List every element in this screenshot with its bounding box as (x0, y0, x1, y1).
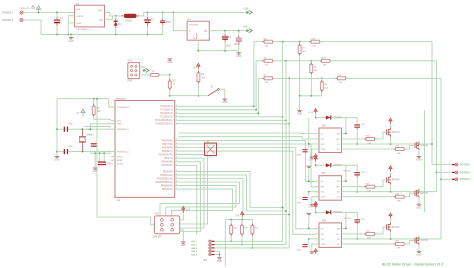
capacitor bootstrap 1uF (354, 219, 360, 220)
resistor R7 divider to gnd (299, 42, 301, 44)
ground low-side source (418, 150, 420, 156)
svg-text:R21: R21 (244, 227, 247, 229)
supply +12V arrow drain (390, 218, 392, 222)
svg-text:+12V: +12V (243, 7, 249, 10)
svg-text:GND: GND (68, 41, 73, 43)
capacitor C4 100n (162, 12, 164, 18)
svg-text:IRF540: IRF540 (392, 131, 400, 134)
wire VCC left (309, 143, 315, 145)
supply +12V arrow drain (390, 171, 392, 175)
svg-text:R20: R20 (234, 227, 237, 229)
wire output 3 (441, 178, 452, 180)
resistor R30 to phase (300, 41, 312, 43)
wire aux rows (179, 162, 201, 232)
svg-text:2: 2 (176, 146, 177, 148)
wire COM gnd (312, 197, 315, 205)
wire IC2 gnd (197, 40, 199, 51)
wire pin stub (315, 243, 319, 245)
wire phase to output vertical (431, 42, 433, 165)
wire pin stub (315, 233, 319, 235)
net flag serial (143, 68, 150, 72)
diode D1 catch diode (115, 16, 117, 19)
svg-text:PC5(ADC5/SCL): PC5(ADC5/SCL) (155, 123, 173, 126)
svg-text:100n: 100n (297, 250, 303, 252)
wire pin stub right (175, 154, 179, 156)
capacitor bootstrap 1uF (354, 124, 360, 125)
svg-text:100n: 100n (297, 202, 303, 204)
wire ADC vertical ch3 (257, 78, 259, 113)
svg-text:R35: R35 (396, 241, 399, 243)
voltage regulator IC2 MC33269 (187, 21, 209, 40)
wire VCC left (309, 191, 315, 193)
wire pin stub right (175, 188, 179, 190)
wire pin stub right (175, 123, 179, 125)
supply +12V arrow lower (314, 154, 317, 159)
ground (55, 156, 60, 157)
switch S1 (198, 95, 208, 97)
wire pin stub right (175, 164, 179, 166)
wire pin stub right (175, 174, 179, 176)
svg-text:AGND: AGND (117, 163, 123, 166)
wire pin stub (315, 148, 319, 150)
wire avcc nets (90, 152, 111, 154)
svg-text:AVR-ISP: AVR-ISP (152, 235, 162, 238)
capacitor 100n driver (308, 239, 310, 244)
wire hall signal 3 (179, 123, 290, 125)
transistor Q high-side MOSFET (387, 175, 391, 184)
svg-text:MOTOR-2: MOTOR-2 (460, 172, 471, 174)
wire pin stub (315, 133, 319, 135)
wire hall vertical 2 (285, 61, 287, 245)
ground low-side source (418, 245, 420, 251)
svg-text:100uH: 100uH (125, 20, 132, 22)
wire IN2 (179, 140, 315, 181)
svg-text:2: 2 (176, 170, 177, 172)
svg-text:+5V: +5V (76, 113, 80, 115)
diode bootstrap 1N4148 (316, 164, 326, 166)
wire phase node (346, 191, 437, 193)
svg-text:PD4(XCK/T0): PD4(XCK/T0) (159, 154, 173, 157)
wire pin stub right (175, 157, 179, 159)
svg-text:1: 1 (109, 122, 110, 124)
wire IC1 OUT (105, 13, 122, 16)
gate driver IC7 IR2104 (319, 176, 342, 201)
wire pin stub right (175, 161, 179, 163)
junction long vertical (288, 77, 290, 79)
wire power return (23, 20, 41, 34)
svg-text:HAL-3: HAL-3 (191, 247, 198, 250)
wire VB (345, 212, 347, 228)
svg-text:1: 1 (109, 155, 110, 157)
ground (297, 110, 302, 111)
wire phase node (346, 238, 442, 240)
junction long vertical (285, 60, 287, 62)
wire pin stub (315, 238, 319, 240)
svg-text:1uF: 1uF (361, 219, 366, 221)
ground top-left (308, 168, 310, 181)
svg-text:MOTOR-1: MOTOR-1 (460, 165, 471, 167)
wire extra left row (84, 125, 111, 127)
svg-text:COM: COM (321, 197, 326, 199)
wire pin stub right (175, 112, 179, 114)
svg-text:16MHz: 16MHz (86, 134, 94, 136)
supply arrow VIN (36, 6, 40, 12)
svg-text:HAL-4: HAL-4 (191, 250, 198, 253)
wire power top (23, 12, 74, 14)
resistor R3 reset pullup (93, 99, 95, 105)
svg-text:2: 2 (176, 177, 177, 179)
capacitor C7 22p (57, 128, 64, 130)
svg-text:PB7(XTAL2): PB7(XTAL2) (117, 151, 129, 154)
svg-text:PD3(INT1): PD3(INT1) (162, 151, 173, 153)
resistor gate high (346, 138, 367, 140)
capacitor C6 100nF (238, 31, 240, 36)
svg-text:BLDC Motor Driver - Daniel Sch: BLDC Motor Driver - Daniel Schori V1.0 (382, 263, 444, 267)
capacitor 100n driver (308, 144, 310, 149)
svg-text:GND: GND (217, 261, 222, 263)
wire phase node (346, 143, 433, 145)
svg-text:PD6(AIN0): PD6(AIN0) (161, 161, 172, 164)
supply +12V arrow (314, 156, 317, 161)
connector X2 pin 3 (452, 179, 455, 180)
svg-text:22p: 22p (69, 146, 74, 148)
wire sense row to phase vertical (319, 41, 432, 43)
ground (93, 168, 98, 169)
svg-text:PD5(T1): PD5(T1) (164, 158, 173, 160)
svg-text:+5V: +5V (193, 67, 198, 69)
wire VB (345, 165, 347, 181)
wire PB row5 to ISP (166, 186, 236, 216)
wire phase to output vertical (440, 78, 442, 239)
svg-text:10uF: 10uF (226, 45, 232, 47)
svg-text:22p: 22p (69, 124, 74, 126)
svg-text:SV1: SV1 (128, 61, 133, 63)
capacitor 100n driver (308, 192, 310, 197)
svg-text:+5V: +5V (243, 25, 248, 28)
wire pin stub right (175, 178, 179, 180)
svg-text:PC3(ADC3): PC3(ADC3) (160, 116, 172, 119)
wire hall rows (215, 240, 282, 242)
svg-text:MEGA8-P: MEGA8-P (116, 97, 127, 100)
wire COM gnd (312, 149, 315, 157)
svg-text:JP2: JP2 (203, 260, 208, 262)
wire output 1 (432, 164, 452, 166)
resistor R5 series (256, 60, 264, 62)
wire PB row1 loop (179, 171, 283, 207)
wire S1 to MCU (170, 95, 199, 97)
wire +12V rail (144, 11, 245, 13)
wire pin stub right (175, 109, 179, 111)
svg-text:2: 2 (176, 108, 177, 110)
svg-text:PWR+12V: PWR+12V (20, 8, 31, 10)
ground (217, 258, 222, 259)
svg-text:1uF: 1uF (361, 172, 366, 174)
wire pin stub right (175, 119, 179, 121)
wire PB row3 loop (179, 179, 290, 215)
wire pin stub right (175, 170, 179, 172)
svg-text:2: 2 (176, 153, 177, 155)
svg-text:GND: GND (77, 23, 82, 25)
svg-text:GND: GND (416, 207, 421, 209)
resistor gate high (346, 233, 367, 235)
supply +12V arrow drain (390, 123, 392, 127)
resistor gate low (346, 148, 396, 150)
wire gnd vertical crystal (56, 99, 58, 156)
capacitor C9 avcc 100n (91, 143, 97, 144)
ground (168, 59, 173, 60)
svg-text:10R: 10R (397, 248, 401, 250)
resistor hall pullups R20-R22 (230, 220, 232, 224)
svg-text:VB: VB (337, 181, 340, 183)
svg-text:LM2574N-12: LM2574N-12 (76, 28, 90, 31)
svg-text:HO: HO (336, 234, 340, 236)
svg-text:HAL-5: HAL-5 (191, 253, 198, 256)
wire output 2 (437, 171, 452, 173)
svg-text:2: 2 (176, 188, 177, 190)
ground (180, 230, 184, 242)
svg-text:2: 2 (176, 164, 177, 166)
svg-text:+5V: +5V (235, 215, 240, 217)
wire divider gnd rail (300, 95, 322, 97)
svg-text:RX: RX (142, 67, 146, 69)
transistor Q low-side MOSFET (415, 236, 419, 245)
svg-text:VIN: VIN (77, 9, 81, 11)
svg-text:GND: GND (181, 245, 186, 247)
wire pin stub right (175, 185, 179, 187)
svg-text:HO: HO (336, 139, 340, 141)
svg-text:IRF540: IRF540 (392, 179, 400, 182)
transistor Q low-side MOSFET (415, 189, 419, 198)
svg-text:2: 2 (176, 150, 177, 152)
op-amp IC1 LM2574 buck regulator (75, 5, 105, 27)
svg-text:GND: GND (222, 102, 227, 104)
wire PD rows to ISP (179, 155, 208, 224)
svg-text:100n: 100n (107, 163, 113, 165)
wire ground rail top-left (41, 33, 163, 35)
svg-text:MOTOR-3: MOTOR-3 (460, 179, 471, 181)
svg-text:GND: GND (297, 114, 302, 116)
svg-text:R30: R30 (366, 136, 369, 138)
supply +12V arrow lower (314, 249, 317, 254)
svg-text:PB6(XTAL1): PB6(XTAL1) (117, 128, 129, 131)
svg-text:PC2(ADC2): PC2(ADC2) (160, 112, 172, 115)
wire pin stub right (175, 139, 179, 141)
ground (238, 51, 240, 53)
svg-text:PD0(RXD): PD0(RXD) (162, 140, 173, 142)
wire pin stub left (111, 123, 115, 125)
wire +12V chain (424, 110, 426, 212)
ground top-left (308, 215, 310, 228)
ground (223, 99, 228, 100)
resistor R32 to phase (322, 77, 338, 79)
svg-text:SV2: SV2 (154, 214, 159, 216)
svg-text:10R: 10R (397, 201, 401, 203)
transistor Q low-side MOSFET (415, 141, 419, 150)
svg-text:PB3(MOSI/OC2): PB3(MOSI/OC2) (155, 182, 172, 184)
wire pin stub left (111, 106, 115, 108)
wire SD3 (179, 151, 315, 234)
jumper JP1 (205, 143, 217, 156)
svg-text:VCC: VCC (321, 144, 326, 146)
wire IC1 FB (105, 16, 113, 19)
svg-text:VB: VB (337, 133, 340, 135)
svg-text:LO: LO (337, 244, 340, 246)
svg-text:GND: GND (54, 160, 59, 162)
connector X2 pin 2 (452, 172, 455, 173)
svg-text:PB2(SS/OC1B): PB2(SS/OC1B) (157, 178, 173, 180)
svg-text:2: 2 (176, 112, 177, 114)
svg-text:2: 2 (176, 119, 177, 121)
resistor R8 divider to gnd (310, 61, 312, 63)
gate driver IC8 IR2104 (319, 223, 342, 248)
wire pin stub (315, 191, 319, 193)
crystal Q1 16MHz (81, 128, 83, 130)
svg-text:PC0(ADC0): PC0(ADC0) (160, 105, 172, 108)
resistor R9 divider to gnd (321, 78, 323, 80)
svg-text:GND: GND (236, 56, 241, 58)
resistor R31 to phase (311, 60, 321, 62)
capacitor C5 10uF (224, 31, 226, 35)
wire hall vertical 3 (288, 78, 290, 248)
svg-text:IR2104: IR2104 (344, 217, 352, 220)
resistor gate low (346, 196, 396, 198)
wire IN3 (179, 148, 315, 229)
svg-text:LO: LO (337, 197, 340, 199)
svg-text:100n: 100n (166, 22, 172, 24)
connector X2 pin 1 (452, 164, 455, 165)
svg-text:VCC: VCC (117, 121, 122, 123)
resistor R1 10k pullup (197, 68, 199, 71)
wire IC1 pins left (68, 15, 74, 17)
resistor gate low (346, 243, 396, 245)
wire sense row to phase vertical (330, 60, 437, 62)
svg-text:HAL-2: HAL-2 (191, 244, 198, 247)
supply +5V arrow SV2 (180, 214, 184, 220)
svg-text:PC6(/RESET): PC6(/RESET) (117, 107, 130, 109)
resistor R4 series (254, 41, 264, 43)
svg-text:VO: VO (204, 31, 208, 33)
svg-text:+12V: +12V (308, 207, 314, 209)
wire 12V to IC2 (173, 12, 187, 30)
wire bootstrap to cap (346, 165, 357, 171)
svg-text:GND: GND (117, 124, 122, 126)
inductor L1 100uH (124, 14, 137, 18)
svg-text:1: 1 (109, 150, 110, 152)
wire XTAL1 jog (86, 128, 91, 130)
supply +12V arrow (314, 203, 317, 208)
diode bootstrap 1N4148 (316, 117, 326, 119)
ground low-side source (418, 198, 420, 204)
wire ADC vertical ch1 (253, 42, 255, 107)
svg-text:1: 1 (109, 106, 110, 108)
wire hall pullup rail (225, 219, 252, 221)
svg-text:GND: GND (416, 255, 421, 257)
svg-text:R33: R33 (396, 146, 399, 148)
svg-text:AREF: AREF (117, 159, 123, 162)
wire VCC corner (109, 99, 115, 107)
junction long vertical (282, 41, 284, 43)
wire pin stub right (175, 116, 179, 118)
wire pin stub right (175, 181, 179, 183)
capacitor C1 100uF input (56, 13, 58, 17)
wire pin stub left (111, 120, 115, 122)
ground (70, 34, 72, 37)
wire hall vertical 1 (282, 42, 284, 242)
wire pin stub right (175, 150, 179, 152)
svg-text:R32: R32 (366, 231, 369, 233)
svg-text:PB4(MISO): PB4(MISO) (161, 185, 173, 188)
wire pin stub right (175, 105, 179, 107)
svg-text:2: 2 (176, 139, 177, 141)
capacitor bootstrap 1uF (354, 172, 360, 173)
svg-text:ADJ: ADJ (193, 37, 197, 40)
svg-text:PB0(ICP): PB0(ICP) (163, 171, 173, 173)
svg-text:HO: HO (336, 187, 340, 189)
wire IC2 out +5V (209, 30, 244, 32)
svg-text:AVCC: AVCC (117, 156, 123, 159)
svg-text:2: 2 (176, 142, 177, 144)
wire COM gnd (312, 244, 315, 252)
svg-text:R22: R22 (255, 227, 258, 229)
wire bootstrap to cap (346, 118, 357, 124)
wire ADC rows from MCU (179, 105, 254, 107)
svg-text:100nF: 100nF (234, 44, 241, 46)
wire pin stub left (111, 128, 115, 130)
svg-text:1: 1 (109, 128, 110, 130)
wire gnd rail IC2 (198, 50, 239, 52)
svg-text:VB: VB (337, 228, 340, 230)
wire hall signal 1 (179, 116, 283, 118)
svg-text:2: 2 (176, 181, 177, 183)
wire PB row4 to ISP (160, 182, 240, 216)
svg-text:POWER-2: POWER-2 (2, 19, 14, 22)
wire VB (345, 118, 347, 134)
svg-text:2: 2 (176, 173, 177, 175)
wire pin stub (315, 180, 319, 182)
svg-text:10R: 10R (397, 153, 401, 155)
svg-text:LO: LO (337, 149, 340, 151)
svg-text:JTAG: JTAG (127, 80, 133, 83)
wire bootstrap to cap (346, 212, 357, 218)
svg-text:VCC: VCC (321, 192, 326, 194)
wire +5V loop left (56, 98, 58, 100)
svg-text:PB5(SCK): PB5(SCK) (162, 189, 173, 191)
wire VCC left (309, 238, 315, 240)
resistor R2 (169, 75, 171, 79)
wire PB row2 loop (179, 175, 286, 211)
svg-text:1: 1 (109, 159, 110, 161)
svg-text:ON/OFF: ON/OFF (77, 16, 85, 18)
svg-text:2: 2 (176, 115, 177, 117)
wire SD1 from PD (179, 137, 315, 139)
supply +12V arrow lower (314, 202, 317, 207)
transistor Q high-side MOSFET (387, 128, 391, 137)
svg-text:+5V: +5V (186, 210, 191, 212)
wire pin stub left (111, 156, 115, 158)
svg-text:PB1(OC1A): PB1(OC1A) (160, 174, 173, 177)
wire pin stub (315, 227, 319, 229)
diode bootstrap 1N4148 (316, 211, 326, 213)
resistor gate high (346, 186, 367, 188)
wire IN1 from PD (179, 132, 315, 135)
gate driver IC6 IR2104 (319, 128, 342, 153)
svg-text:IR2104: IR2104 (344, 170, 352, 173)
wire SD2 (179, 144, 315, 187)
svg-text:2: 2 (176, 105, 177, 107)
svg-text:PC4(ADC4/SDA): PC4(ADC4/SDA) (155, 119, 173, 122)
svg-text:+12V: +12V (308, 112, 314, 114)
capacitor C8 22p (57, 151, 64, 153)
